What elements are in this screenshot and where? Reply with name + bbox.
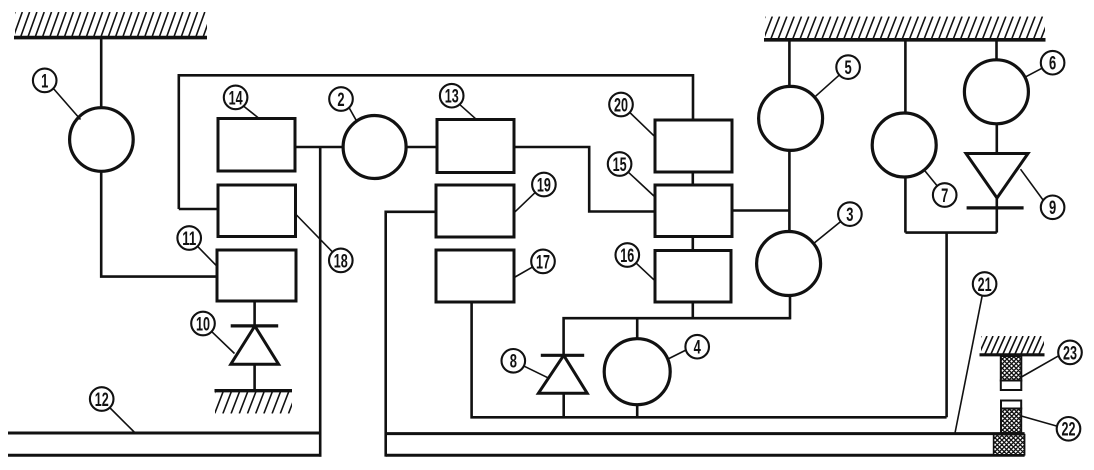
leader line 7 bbox=[924, 169, 938, 187]
junction wire down to rail 12 bbox=[319, 147, 322, 457]
leader line 22 bbox=[1021, 416, 1058, 426]
reference balloon 1 bbox=[33, 69, 57, 93]
unit 14 bbox=[218, 119, 295, 172]
reference balloon 19 bbox=[532, 173, 556, 197]
magnet 23 bbox=[976, 356, 1070, 390]
rail 21 top line bbox=[386, 432, 1025, 435]
reference balloon 10 bbox=[191, 312, 215, 336]
leader line 16 bbox=[635, 262, 655, 281]
unit 19 bbox=[436, 185, 514, 237]
svg-text:5: 5 bbox=[845, 57, 852, 79]
reference balloon 15 bbox=[608, 152, 632, 176]
wire unit 16 down to bottom bus bbox=[691, 302, 694, 318]
reference balloon 6 bbox=[1041, 51, 1065, 75]
rail 21 bottom line bbox=[386, 454, 1025, 457]
check valve 10 seat bar bbox=[231, 324, 279, 327]
motor 5 bbox=[759, 86, 823, 150]
reference balloon 14 bbox=[224, 86, 248, 110]
leader line 15 bbox=[628, 171, 656, 197]
reference balloon 20 bbox=[609, 93, 633, 117]
wire valve 9 down bbox=[995, 198, 998, 233]
reference balloon 17 bbox=[531, 250, 555, 274]
svg-text:3: 3 bbox=[846, 204, 853, 226]
leader line 5 bbox=[814, 74, 840, 98]
reference balloon 7 bbox=[933, 183, 957, 207]
valve 9 triangle bbox=[966, 154, 1028, 199]
leader line 20 bbox=[629, 112, 655, 137]
wire motor 6 to valve 9 bbox=[995, 124, 998, 154]
ceiling support for magnet 23 bbox=[973, 336, 1059, 355]
svg-text:17: 17 bbox=[536, 251, 550, 273]
svg-text:16: 16 bbox=[620, 245, 634, 267]
reference balloon 23 bbox=[1058, 341, 1082, 365]
reference balloon 18 bbox=[329, 249, 353, 273]
leader line 18 bbox=[296, 215, 333, 253]
compressor 4 bbox=[604, 339, 670, 405]
reference balloon 3 bbox=[838, 202, 862, 226]
svg-text:18: 18 bbox=[334, 250, 348, 272]
svg-text:11: 11 bbox=[182, 228, 196, 250]
svg-text:19: 19 bbox=[537, 174, 551, 196]
reference balloon 8 bbox=[502, 349, 526, 373]
wire ceiling to motor 6 bbox=[995, 41, 998, 60]
reference balloon 12 bbox=[90, 387, 114, 411]
wire into unit 18 bbox=[179, 208, 218, 211]
bottom bus wire bbox=[472, 302, 947, 417]
pump 1 bbox=[70, 108, 134, 172]
leader line 4 bbox=[668, 350, 687, 360]
leader line 1 bbox=[54, 89, 81, 120]
wire check valve 10 to ground bbox=[253, 364, 256, 391]
unit 13 bbox=[437, 120, 514, 173]
wire joining motor 7 and valve 9 bbox=[905, 231, 996, 234]
unit 16 bbox=[655, 251, 731, 303]
leader line 14 bbox=[243, 106, 259, 119]
wire from ceiling to pump 1 bbox=[100, 39, 103, 108]
wire unit 14 to pump 2 bbox=[295, 146, 344, 149]
link unit 15 to unit 16 bbox=[691, 237, 694, 251]
leader line 9 bbox=[1021, 169, 1044, 201]
wire unit 19 to rail 21 bbox=[386, 212, 436, 457]
svg-text:23: 23 bbox=[1063, 342, 1077, 364]
reference balloon 5 bbox=[836, 55, 860, 79]
reference balloon 13 bbox=[440, 84, 464, 108]
wire motor 5 to motor 3 bbox=[788, 150, 791, 231]
leader line 17 bbox=[514, 266, 533, 277]
motor 6 bbox=[964, 60, 1028, 124]
leader line 13 bbox=[459, 104, 476, 119]
wire unit 13 to unit 15 bbox=[514, 147, 655, 212]
svg-text:12: 12 bbox=[95, 389, 109, 411]
reference balloon 16 bbox=[616, 243, 640, 267]
svg-text:10: 10 bbox=[196, 313, 210, 335]
wire motor 3 to bottom bus bbox=[789, 295, 792, 319]
svg-text:21: 21 bbox=[978, 274, 992, 296]
ceiling support top-left bbox=[6, 12, 219, 38]
check valve 10 triangle bbox=[231, 326, 279, 364]
armature block on rail 21 bbox=[973, 435, 1062, 455]
wire motor 7 down bbox=[904, 177, 907, 233]
link unit 20 to unit 15 bbox=[691, 172, 694, 185]
wire ceiling to motor 5 bbox=[788, 41, 791, 87]
svg-text:8: 8 bbox=[510, 351, 517, 373]
wire unit 11 to check valve 10 bbox=[253, 301, 256, 326]
leader line 6 bbox=[1025, 68, 1043, 78]
unit 11 bbox=[217, 250, 296, 301]
valve 9 seat bar bbox=[967, 206, 1024, 209]
wire top loop from unit 18 to unit 20 bbox=[179, 75, 693, 209]
leader line 2 bbox=[349, 107, 358, 122]
svg-text:4: 4 bbox=[694, 337, 701, 359]
svg-text:9: 9 bbox=[1049, 197, 1056, 219]
reference balloon 22 bbox=[1057, 417, 1081, 441]
check valve 8 seat bar bbox=[541, 354, 584, 357]
leader line 21 bbox=[955, 295, 982, 433]
wire down to bottom bus bbox=[945, 233, 948, 418]
rail 12 top line bbox=[8, 432, 320, 435]
leader line 3 bbox=[813, 221, 842, 244]
unit 15 bbox=[655, 185, 732, 237]
reference balloon 2 bbox=[329, 87, 353, 111]
wire ceiling to motor 7 bbox=[904, 41, 907, 113]
magnet 22 bbox=[977, 401, 1071, 434]
svg-text:20: 20 bbox=[614, 94, 628, 116]
wire unit 15 to motor column 5-3 bbox=[732, 209, 789, 212]
ceiling support top-right bbox=[756, 17, 1057, 40]
check valve 8 triangle bbox=[538, 355, 587, 393]
svg-text:15: 15 bbox=[613, 154, 627, 176]
svg-text:13: 13 bbox=[445, 86, 459, 108]
svg-text:22: 22 bbox=[1062, 419, 1076, 441]
leader line 23 bbox=[1021, 355, 1059, 377]
reference balloon 9 bbox=[1041, 196, 1065, 220]
wire pump 1 to unit 11 bbox=[101, 171, 217, 276]
reference balloon 11 bbox=[177, 226, 201, 250]
svg-text:6: 6 bbox=[1049, 53, 1056, 75]
leader line 19 bbox=[515, 192, 536, 213]
mid bus wire bbox=[564, 318, 791, 355]
wire check valve 8 to bus bbox=[562, 393, 565, 417]
leader line 8 bbox=[523, 366, 549, 379]
motor 7 bbox=[872, 113, 936, 177]
motor 3 bbox=[757, 232, 821, 296]
leader line 12 bbox=[109, 407, 135, 433]
svg-text:2: 2 bbox=[337, 89, 344, 111]
reference balloon 21 bbox=[973, 272, 997, 296]
svg-text:14: 14 bbox=[229, 87, 243, 109]
svg-text:7: 7 bbox=[941, 185, 948, 207]
unit 18 bbox=[218, 185, 296, 237]
wire to compressor 4 bbox=[636, 318, 639, 339]
wire pump 2 to unit 13 bbox=[406, 146, 437, 149]
svg-text:1: 1 bbox=[41, 70, 48, 92]
pump 2 bbox=[343, 116, 406, 179]
wire compressor 4 to bus bbox=[636, 405, 639, 418]
unit 17 bbox=[436, 250, 514, 302]
leader line 10 bbox=[211, 331, 235, 354]
ground support under check valve 10 bbox=[207, 391, 306, 414]
rail 12 bottom line bbox=[8, 454, 322, 457]
unit 20 bbox=[655, 120, 732, 172]
reference balloon 4 bbox=[685, 335, 709, 359]
leader line 11 bbox=[197, 246, 218, 267]
